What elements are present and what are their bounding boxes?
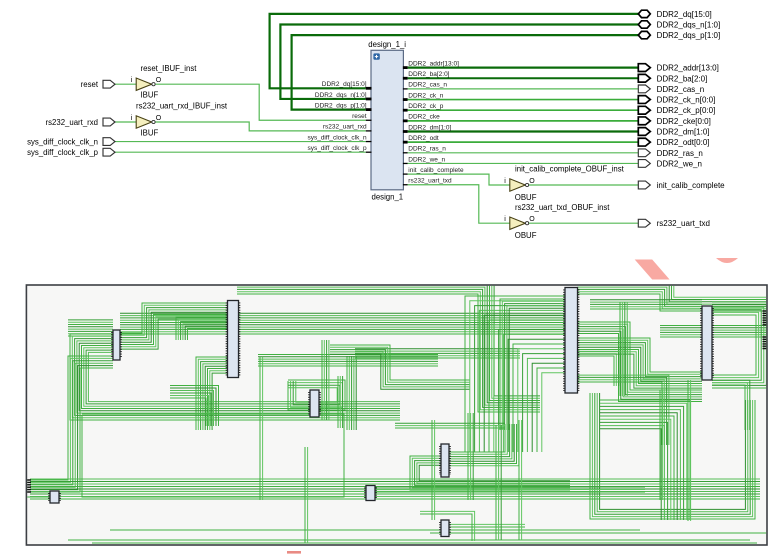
svg-text:DDR2_we_n: DDR2_we_n [657,159,702,168]
wire bundle block5 drop to bottom [590,393,755,519]
pin DDR2_dqs_n[1:0] (left) [315,92,372,99]
wire bundle block2-left staircase [120,303,227,349]
output port DDR2_we_n [638,159,702,168]
wire bundle block8 right [375,487,645,492]
svg-text:IBUF: IBUF [141,129,159,138]
wire bundle centre horizontals [258,355,438,367]
watermark red wedge [716,258,738,263]
wire DDR2_dqs_n bus loop [280,25,638,99]
wire bundle block6 right rings [712,302,769,388]
pin DDR2_we_n (right) [403,156,446,163]
buffer rs232_uart_rxd_IBUF_inst (IBUF) [131,102,228,138]
inout port DDR2_dq[15:0] [638,10,711,19]
input port sys_diff_clock_clk_p [27,148,115,157]
wire bundle left U-loop [70,334,400,420]
wire rs232_uart_rxd IBUF to block [152,122,366,131]
wire drop verticals f [496,425,501,540]
wire init_calib_complete block to OBUF [408,174,510,185]
svg-text:DDR2_ras_n: DDR2_ras_n [657,149,703,158]
wire block9 ring [420,511,475,541]
svg-text:OBUF: OBUF [515,231,537,240]
watermark red slash [635,260,670,280]
wire bundle right verticals [620,302,627,396]
wire bundle centre band2 [355,349,520,358]
wire bundle block4 fan [449,424,519,466]
pin DDR2_dq[15:0] (left) [322,81,372,88]
svg-text:DDR2_ba[2:0]: DDR2_ba[2:0] [657,74,708,83]
output port DDR2_ck_n[0:0] [638,96,715,105]
wire sys_diff_clock_clk_n [115,141,366,143]
wire bundle block4 lower loop [410,456,570,490]
wire bundle left of blockA [68,320,113,336]
svg-text:init_calib_complete: init_calib_complete [408,167,464,174]
output port DDR2_ba[2:0] [638,74,707,83]
wire reset IBUF to block [152,84,366,120]
wire bundle block5 to block6 top [590,300,702,309]
wire bundle riser inner [500,299,565,430]
block instance design_1_i [368,40,406,202]
svg-text:rs232_uart_rxd: rs232_uart_rxd [323,124,367,131]
input port sys_diff_clock_clk_n [27,137,115,146]
svg-text:DDR2_dqs_n[1:0]: DDR2_dqs_n[1:0] [315,92,367,99]
svg-text:DDR2_ck_n: DDR2_ck_n [408,92,443,99]
svg-text:DDR2_dm[1:0]: DDR2_dm[1:0] [408,124,451,131]
svg-text:DDR2_we_n: DDR2_we_n [408,156,445,163]
svg-text:reset: reset [352,113,367,120]
pin DDR2_cas_n (right) [403,82,447,89]
wire sys_diff_clock_clk_p [115,151,366,153]
pin DDR2_ras_n (right) [403,146,446,153]
wire rs232_uart_txd OBUF to port [525,222,638,224]
pin DDR2_ck_n (right) [403,92,444,99]
svg-text:DDR2_odt[0:0]: DDR2_odt[0:0] [657,138,710,147]
pin reset (left) [352,113,371,120]
wire bundle block5 right short [578,351,619,386]
netlist block E [564,288,579,394]
svg-text:DDR2_ck_p[0:0]: DDR2_ck_p[0:0] [657,106,716,115]
svg-text:rs232_uart_rxd: rs232_uart_rxd [46,118,98,127]
svg-text:DDR2_dqs_p[1:0]: DDR2_dqs_p[1:0] [315,102,367,109]
pin rs232_uart_txd (right) [403,178,452,185]
svg-text:design_1_i: design_1_i [368,40,406,49]
box edge pins right upper [763,310,768,312]
wire DDR2_odt block to port [408,141,639,143]
wire bundle block3 rings [288,380,345,410]
pin sys_diff_clock_clk_p (left) [307,145,371,152]
pin DDR2_cke (right) [403,114,440,121]
wire bundle below block5 [578,375,669,445]
svg-text:DDR2_ras_n: DDR2_ras_n [408,146,446,153]
wire DDR2_dqs_p bus loop [292,35,639,110]
wire bundle block2 top band [237,278,540,412]
svg-text:DDR2_dq[15:0]: DDR2_dq[15:0] [657,10,712,19]
svg-text:reset: reset [81,80,99,89]
svg-text:DDR2_dqs_p[1:0]: DDR2_dqs_p[1:0] [657,31,721,40]
svg-text:init_calib_complete: init_calib_complete [657,181,726,190]
svg-text:IBUF: IBUF [141,91,159,100]
svg-text:rs232_uart_txd: rs232_uart_txd [408,178,452,185]
wire bundle staircase left-bottom [170,386,219,427]
svg-text:DDR2_ba[2:0]: DDR2_ba[2:0] [408,71,449,78]
svg-text:O: O [156,115,162,122]
wire bundle below block6 [712,380,750,430]
wire block7 right [59,491,520,494]
svg-text:DDR2_dqs_n[1:0]: DDR2_dqs_n[1:0] [657,21,721,30]
svg-text:O: O [529,216,535,223]
wire DDR2_dq bus loop [270,14,639,88]
wire bundle central band [120,313,565,334]
netlist block A [112,330,121,360]
svg-text:design_1: design_1 [372,192,404,201]
pin DDR2_odt (right) [403,135,439,142]
wire DDR2_ras_n block to port [408,152,639,154]
wire bundle block2-left low [196,357,227,430]
wire bottom single 3 [110,529,640,531]
box edge pins left [26,479,31,481]
wire bundle above block4 [395,423,505,428]
output port DDR2_cas_n [638,85,704,94]
pin init_calib_complete (right) [403,167,464,174]
wire init_calib_complete OBUF to port [525,184,638,186]
wire bundle centre verticals c [322,340,329,420]
wire big rectangle loop [82,414,344,497]
wire bundle blockA to left edge [27,356,113,492]
wire DDR2_ba block to port [408,77,639,79]
pin rs232_uart_rxd (left) [323,124,372,131]
wire DDR2_we_n block to port [408,162,639,164]
wire bundle centre verticals b [347,356,356,430]
netlist block I [440,520,450,537]
svg-text:rs232_uart_txd: rs232_uart_txd [657,219,710,228]
wire drop verticals h [688,380,691,521]
wire block9 right [449,524,525,527]
wire drop verticals a [260,357,263,500]
output port DDR2_cke[0:0] [638,117,711,126]
wire drop verticals d [519,420,522,540]
netlist viewport box [26,285,767,545]
buffer rs232_uart_txd_OBUF_inst (OBUF) [504,203,610,240]
wire DDR2_addr block to port [408,66,639,68]
svg-text:DDR2_ck_n[0:0]: DDR2_ck_n[0:0] [657,96,716,105]
wire bundle right rows to edge [660,326,767,338]
wire DDR2_cke block to port [408,120,639,122]
wire bundle block2-left mid [176,317,227,340]
svg-text:O: O [529,178,535,185]
wire DDR2_ck_p block to port [408,109,639,111]
wire DDR2_ck_n block to port [408,99,639,101]
output port rs232_uart_txd [638,219,710,228]
output port DDR2_ras_n [638,149,703,158]
output port init_calib_complete [638,181,725,190]
svg-text:DDR2_odt: DDR2_odt [408,135,439,142]
wire bundle bottom band [30,479,760,499]
wire drop verticals b [305,447,308,543]
svg-text:rs232_uart_rxd_IBUF_inst: rs232_uart_rxd_IBUF_inst [136,102,228,111]
svg-text:sys_diff_clock_clk_n: sys_diff_clock_clk_n [27,137,98,146]
svg-text:DDR2_addr[13:0]: DDR2_addr[13:0] [408,60,459,67]
buffer reset_IBUF_inst (IBUF) [131,64,198,100]
wire bottom single 4 [430,532,767,534]
red tick below box [287,551,301,554]
wire DDR2_dm block to port [408,130,639,132]
wire drop verticals c [432,420,435,520]
output port DDR2_ck_p[0:0] [638,106,715,115]
svg-text:rs232_uart_txd_OBUF_inst: rs232_uart_txd_OBUF_inst [515,203,610,212]
netlist block D [440,444,450,477]
wire reset port to IBUF [115,83,136,85]
wire block7 left [27,496,50,498]
svg-text:sys_diff_clock_clk_p: sys_diff_clock_clk_p [307,145,367,152]
pin DDR2_dqs_p[1:0] (left) [315,102,372,109]
box edge pins right lower [763,336,768,338]
svg-text:OBUF: OBUF [515,193,537,202]
wire bottom single 1 [68,539,750,541]
wire bundle right fan down [600,400,690,520]
svg-text:DDR2_dm[1:0]: DDR2_dm[1:0] [657,128,710,137]
netlist block C [309,390,320,417]
wire bundle riser fan to block5 [465,296,565,452]
netlist block B [227,301,240,378]
svg-text:DDR2_cas_n: DDR2_cas_n [408,82,447,89]
pin DDR2_ck_p (right) [403,103,444,110]
input port rs232_uart_rxd [46,118,115,127]
svg-text:reset_IBUF_inst: reset_IBUF_inst [141,64,198,73]
wire bundle centre verticals a [338,376,343,428]
wire rs232_uart_txd block to OBUF [408,185,510,223]
wire DDR2_cas_n block to port [408,88,639,90]
pin sys_diff_clock_clk_n (left) [307,134,371,141]
netlist block G [49,491,60,503]
output port DDR2_odt[0:0] [638,138,709,147]
wire drop verticals g [660,390,663,500]
wire bottom single 2 [92,542,757,544]
svg-text:O: O [156,77,162,84]
svg-text:sys_diff_clock_clk_n: sys_diff_clock_clk_n [307,134,367,141]
svg-text:DDR2_dq[15:0]: DDR2_dq[15:0] [322,81,367,88]
svg-text:DDR2_addr[13:0]: DDR2_addr[13:0] [657,64,719,73]
netlist block H [365,486,376,501]
output port DDR2_addr[13:0] [638,64,719,73]
pin DDR2_addr[13:0] (right) [403,60,459,67]
svg-text:DDR2_cke[0:0]: DDR2_cke[0:0] [657,117,711,126]
netlist block F [701,306,713,380]
inout port DDR2_dqs_n[1:0] [638,21,720,30]
input port reset [81,80,115,89]
wire bundle block5 to right edge [578,280,768,311]
buffer init_calib_complete_OBUF_inst (OBUF) [504,165,624,202]
wire bundle block5-block6 staircase [578,338,703,388]
wire bundle centre staircase [330,345,470,389]
svg-text:DDR2_ck_p: DDR2_ck_p [408,103,443,110]
svg-text:DDR2_cke: DDR2_cke [408,114,440,121]
svg-text:init_calib_complete_OBUF_inst: init_calib_complete_OBUF_inst [515,165,625,174]
output port DDR2_dm[1:0] [638,128,709,137]
wire rs232_uart_rxd port to IBUF [115,121,136,123]
wire bundle block5-block6 staircase2 [578,322,703,402]
wire drop verticals e [468,413,473,500]
svg-text:sys_diff_clock_clk_p: sys_diff_clock_clk_p [27,148,99,157]
svg-text:DDR2_cas_n: DDR2_cas_n [657,85,705,94]
pin DDR2_ba[2:0] (right) [403,71,450,78]
pin DDR2_dm[1:0] (right) [403,124,452,131]
inout port DDR2_dqs_p[1:0] [638,31,720,40]
